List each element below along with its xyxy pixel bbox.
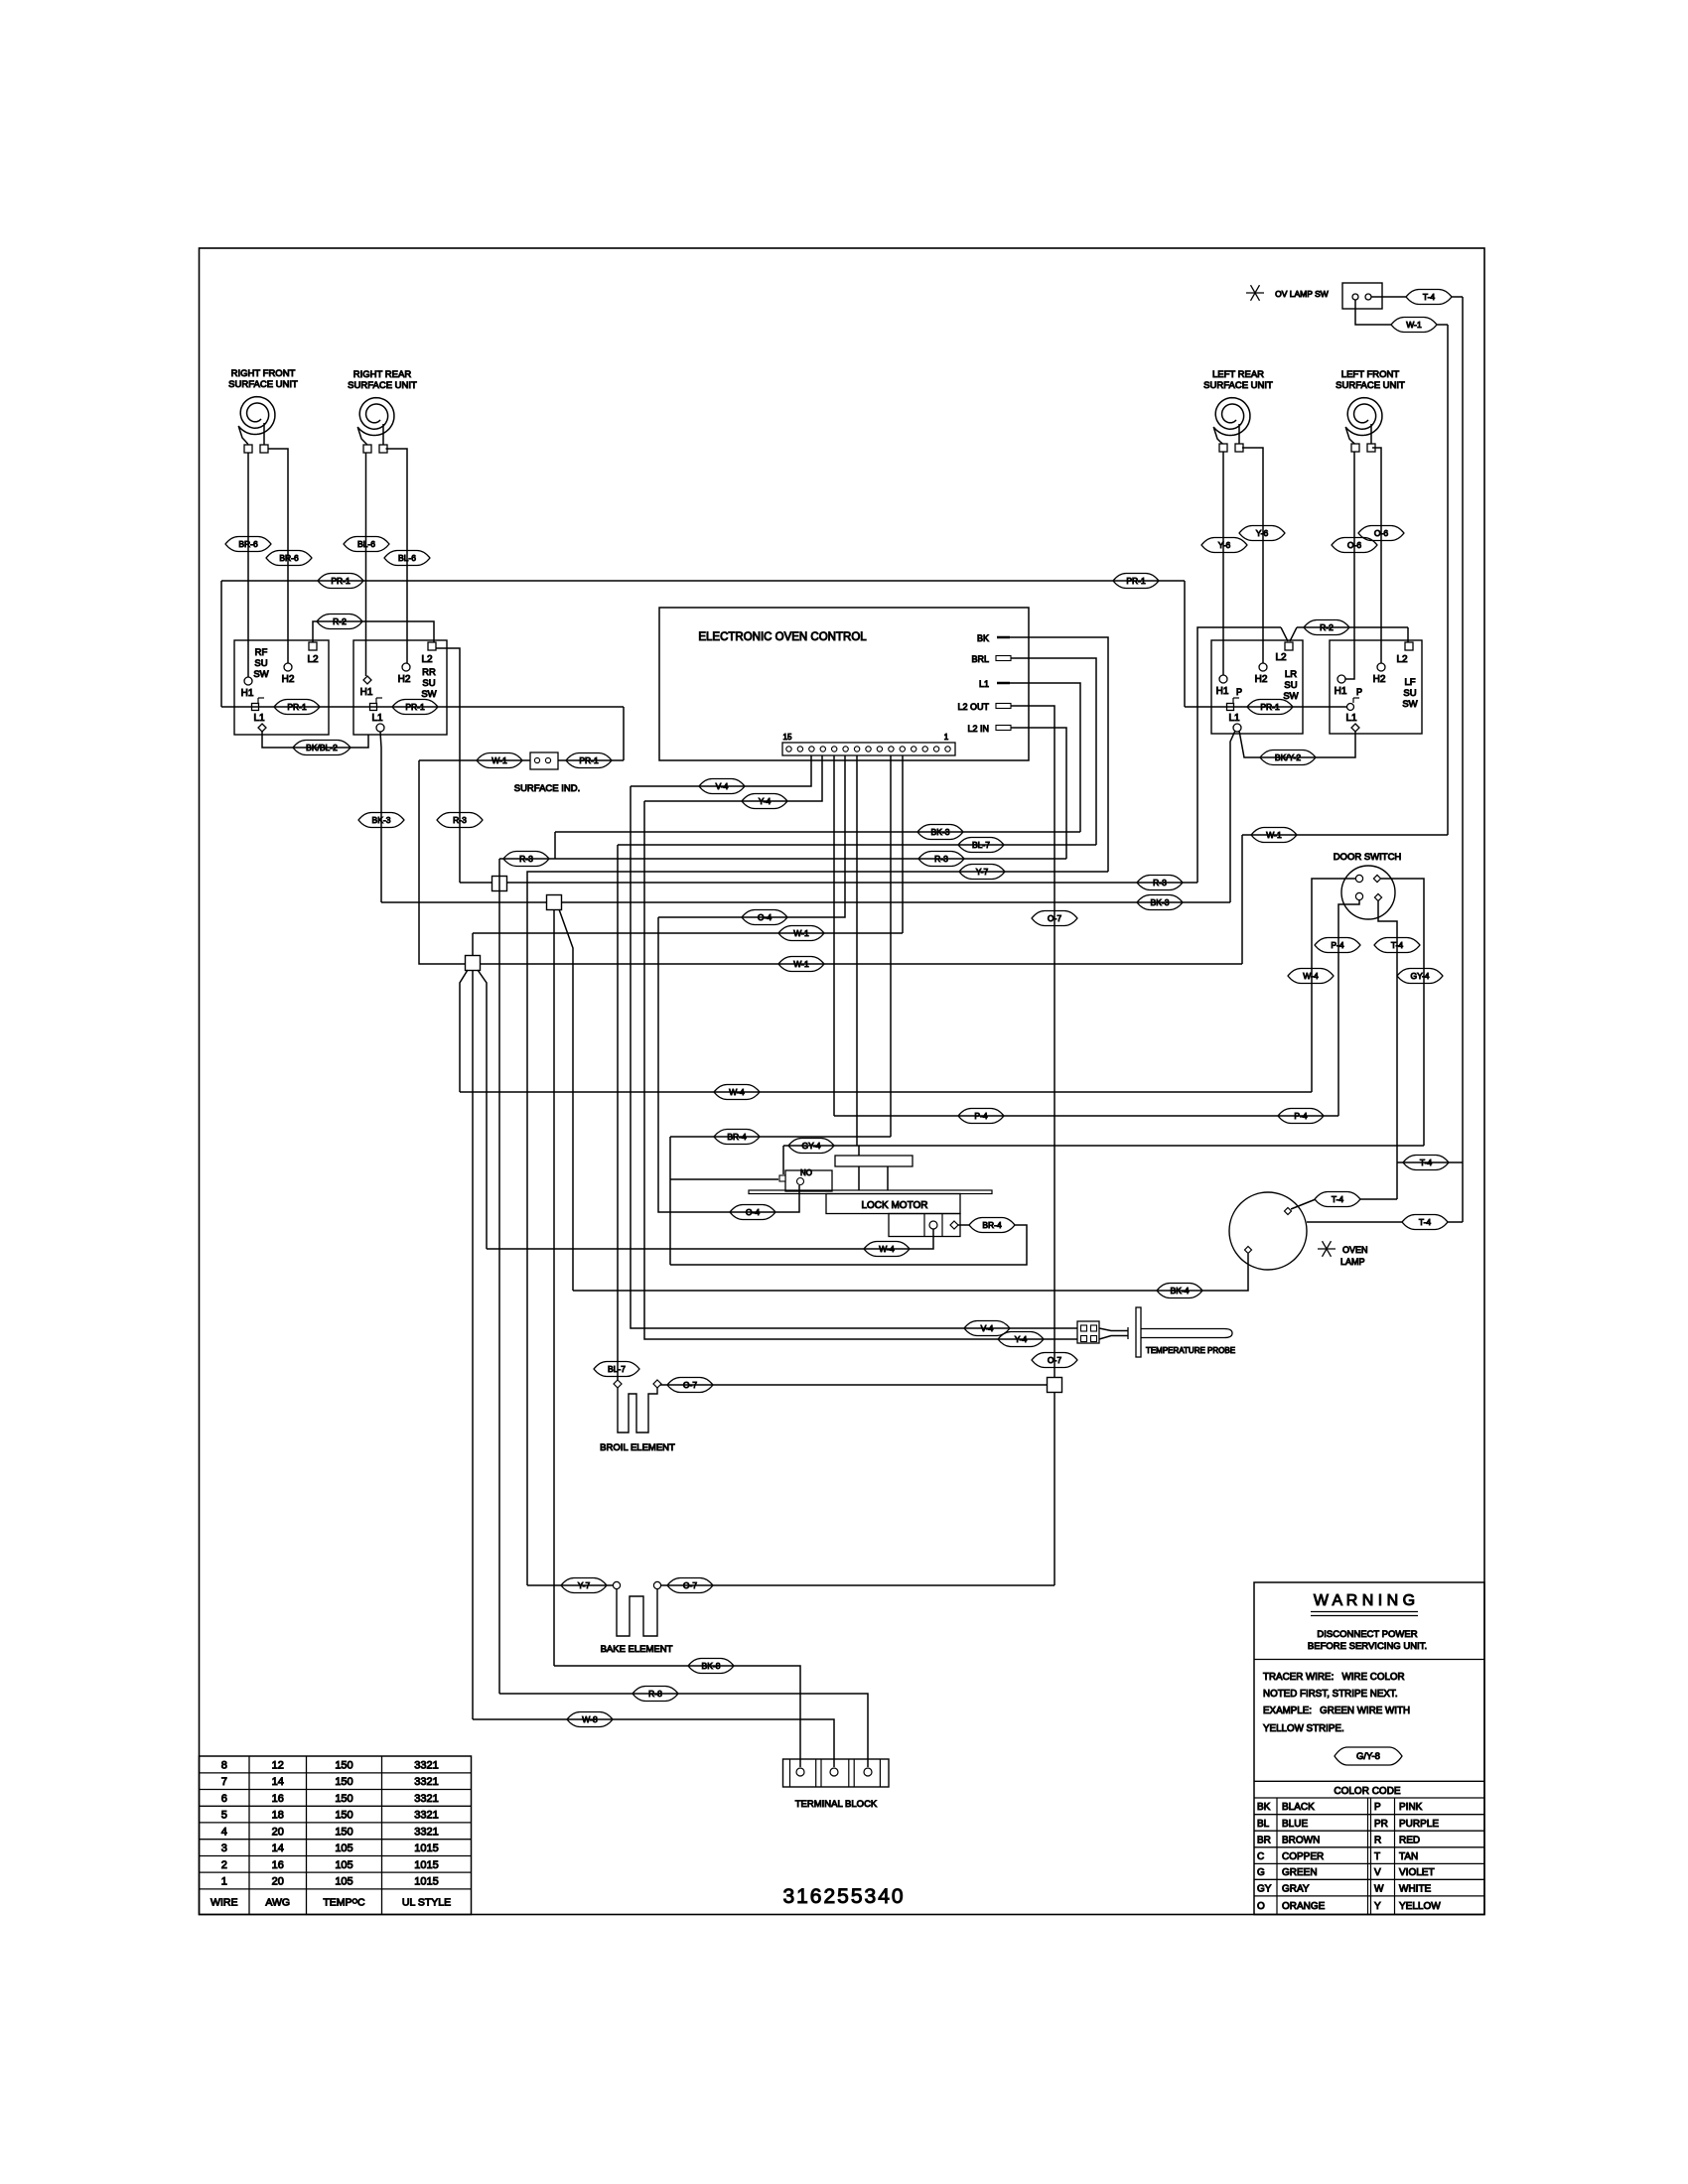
svg-text:R-3: R-3 xyxy=(1153,878,1167,887)
svg-text:TEMPERATURE PROBE: TEMPERATURE PROBE xyxy=(1146,1346,1235,1355)
connector T-4 (lamp right) xyxy=(1402,1215,1448,1230)
svg-text:TAN: TAN xyxy=(1399,1851,1418,1862)
svg-text:T-4: T-4 xyxy=(1423,292,1436,302)
terminal L2 of RR SU SW xyxy=(428,642,436,650)
svg-text:BR-4: BR-4 xyxy=(727,1132,747,1142)
svg-text:3321: 3321 xyxy=(414,1759,438,1771)
wire Y-7 bake line xyxy=(527,1584,613,1586)
asterisk marker for oven lamp switch xyxy=(1246,292,1264,294)
svg-text:L1: L1 xyxy=(979,679,989,689)
svg-text:H1: H1 xyxy=(241,688,254,699)
svg-text:W: W xyxy=(1374,1883,1384,1894)
svg-text:P-4: P-4 xyxy=(1294,1111,1308,1121)
connector BL-6 (RR H2) xyxy=(384,551,430,566)
svg-text:OV LAMP SW: OV LAMP SW xyxy=(1275,289,1329,299)
electronic oven control U1 box xyxy=(659,608,1029,760)
wire GY-4 drop to NO switch xyxy=(782,1146,784,1174)
svg-text:3321: 3321 xyxy=(414,1810,438,1822)
wire BR-4 from strip pin down xyxy=(890,755,892,1137)
wire W-8 to terminal block xyxy=(473,1719,834,1767)
svg-text:GREEN: GREEN xyxy=(1282,1867,1318,1878)
wire W-1 lamp switch horizontal xyxy=(1242,834,1448,836)
svg-text:L2 IN: L2 IN xyxy=(967,724,989,734)
wire white V-leg left xyxy=(460,970,468,1092)
junction orange net xyxy=(1048,1378,1062,1393)
svg-text:ORANGE: ORANGE xyxy=(1282,1901,1326,1912)
svg-text:BK-4: BK-4 xyxy=(1171,1286,1190,1296)
switch LF SU SW box xyxy=(1330,640,1422,734)
terminal P of LR SU SW xyxy=(1227,704,1234,711)
svg-text:SU: SU xyxy=(1284,680,1297,691)
svg-text:SW: SW xyxy=(421,689,436,700)
svg-text:3: 3 xyxy=(221,1843,227,1854)
svg-text:12: 12 xyxy=(272,1759,284,1771)
wire BK-3 line (L1 to red net) xyxy=(555,831,1080,833)
svg-text:VIOLET: VIOLET xyxy=(1399,1867,1435,1878)
svg-text:L1: L1 xyxy=(253,713,265,724)
svg-text:G/Y-8: G/Y-8 xyxy=(1356,1751,1380,1762)
svg-text:BK/Y-2: BK/Y-2 xyxy=(1275,752,1301,762)
wire RR L1 drop BK net xyxy=(380,732,381,902)
connector G/Y-8 example xyxy=(1335,1747,1402,1765)
svg-text:H2: H2 xyxy=(1373,674,1386,685)
terminal H1 of RF SU SW xyxy=(244,677,252,685)
svg-text:YELLOW STRIPE.: YELLOW STRIPE. xyxy=(1263,1723,1344,1734)
svg-text:GRAY: GRAY xyxy=(1282,1883,1310,1894)
svg-text:BL: BL xyxy=(1257,1819,1270,1830)
wire lamp right side T-4 xyxy=(1307,1221,1402,1223)
svg-text:C: C xyxy=(1257,1851,1264,1862)
connector R-8 xyxy=(633,1687,678,1702)
wire bake to orange trunk xyxy=(661,1584,1055,1586)
svg-text:H2: H2 xyxy=(282,674,295,685)
wire LR unit H1 lead xyxy=(1222,452,1224,675)
wire P-4 horizontal xyxy=(834,1115,1338,1117)
wire surface indicator to PR-1 xyxy=(558,759,624,761)
broil element left terminal xyxy=(614,1380,622,1388)
connector O-6 (LF H2) xyxy=(1358,526,1404,541)
svg-text:SURFACE UNIT: SURFACE UNIT xyxy=(228,379,298,390)
svg-text:G: G xyxy=(1257,1867,1265,1878)
svg-text:BK-8: BK-8 xyxy=(702,1661,721,1671)
svg-text:150: 150 xyxy=(335,1810,352,1822)
svg-text:SW: SW xyxy=(1402,699,1417,710)
svg-text:15: 15 xyxy=(783,733,792,742)
svg-text:SW: SW xyxy=(253,669,268,680)
door switch S2 body xyxy=(1341,866,1395,919)
svg-text:W-1: W-1 xyxy=(492,755,507,765)
svg-text:V-4: V-4 xyxy=(981,1323,994,1333)
connector O-7 (on L2 OUT trunk) xyxy=(1032,911,1077,926)
connector PR-1 (inside LR) xyxy=(1247,700,1293,715)
connector O-7 (broil) xyxy=(667,1378,713,1393)
bake element left terminal xyxy=(613,1581,620,1588)
wire W-1 to right trunk xyxy=(1437,324,1448,326)
broil element right terminal xyxy=(653,1380,661,1388)
svg-text:DISCONNECT POWER: DISCONNECT POWER xyxy=(1317,1629,1417,1640)
wire PR-1 right drop xyxy=(1184,581,1186,707)
connector W-4 (left) xyxy=(714,1085,760,1100)
svg-text:Y-4: Y-4 xyxy=(759,796,772,806)
svg-text:SURFACE IND.: SURFACE IND. xyxy=(514,783,581,794)
svg-text:6: 6 xyxy=(221,1793,227,1805)
wire EOC L1 pin xyxy=(1010,683,1080,832)
wire EOC L2 IN pin xyxy=(1011,728,1066,859)
terminal L2 of LR SU SW xyxy=(1285,642,1293,650)
svg-text:P-4: P-4 xyxy=(974,1111,988,1121)
oven lamp terminal lower xyxy=(1245,1247,1252,1254)
svg-text:BL-6: BL-6 xyxy=(398,553,416,563)
svg-text:W-1: W-1 xyxy=(1406,320,1422,330)
svg-text:Y-6: Y-6 xyxy=(1256,528,1269,538)
wire P line left (purple) xyxy=(221,706,624,708)
connector P-4 (mid) xyxy=(958,1109,1004,1124)
terminal L2 of LF SU SW xyxy=(1405,642,1413,650)
svg-text:316255340: 316255340 xyxy=(782,1885,905,1908)
temperature probe tube xyxy=(1141,1329,1232,1338)
connector GY-4 (door) xyxy=(1397,969,1443,984)
svg-text:BR-6: BR-6 xyxy=(238,539,258,549)
svg-text:L2: L2 xyxy=(1275,652,1287,663)
svg-text:H1: H1 xyxy=(1216,686,1229,697)
connector R-3 (left) xyxy=(503,852,549,867)
svg-text:RED: RED xyxy=(1399,1835,1420,1845)
terminal L2 of RF SU SW xyxy=(309,642,317,650)
lock motor mount bar xyxy=(749,1190,992,1194)
svg-text:SURFACE UNIT: SURFACE UNIT xyxy=(1336,380,1405,391)
terminal H1 of LF SU SW xyxy=(1337,675,1345,683)
wire white V-leg right xyxy=(478,970,487,1249)
asterisk oven lamp xyxy=(1318,1248,1336,1250)
wire R-2 line right xyxy=(1197,627,1281,883)
svg-text:BR-4: BR-4 xyxy=(982,1220,1002,1230)
wire W-1 drop to junction xyxy=(472,933,474,955)
svg-text:Y-6: Y-6 xyxy=(1218,540,1231,550)
wire brown lower loop xyxy=(670,1225,1027,1265)
svg-text:RIGHT REAR: RIGHT REAR xyxy=(353,369,412,380)
svg-text:1015: 1015 xyxy=(414,1843,438,1854)
wire right trunk W white vertical xyxy=(1447,325,1449,835)
wire lamp-switch to T-4 connector xyxy=(1371,296,1406,298)
connector Y-7 (upper) xyxy=(959,865,1005,880)
svg-text:O-4: O-4 xyxy=(746,1207,760,1217)
svg-text:L1: L1 xyxy=(1228,713,1240,724)
svg-text:RR: RR xyxy=(422,667,436,678)
wire GY-4 from strip pin down xyxy=(856,755,858,1146)
svg-text:TEMPOC: TEMPOC xyxy=(323,1897,365,1909)
connector Y-6 (LR H1) xyxy=(1201,538,1247,553)
svg-text:O-6: O-6 xyxy=(1374,528,1388,538)
wire Y-7 line BK pin to bake xyxy=(527,872,1108,1585)
color code table xyxy=(1254,1780,1484,1782)
svg-text:W-8: W-8 xyxy=(582,1714,598,1724)
connector BR-6 (RF H1) xyxy=(225,537,271,552)
bake element right terminal xyxy=(653,1581,660,1588)
wire T-4 upper horizontal xyxy=(1397,1161,1463,1163)
wire P-4 from strip pin down xyxy=(833,755,835,1116)
svg-text:R-3: R-3 xyxy=(934,854,948,864)
wire RR unit H1 lead xyxy=(365,453,367,676)
svg-text:BR-6: BR-6 xyxy=(279,553,299,563)
svg-text:PR-1: PR-1 xyxy=(331,576,351,586)
svg-text:L2: L2 xyxy=(307,654,319,665)
svg-text:BL-7: BL-7 xyxy=(608,1364,626,1374)
lock motor stem xyxy=(858,1166,860,1190)
terminal P of RF SU SW xyxy=(252,704,259,711)
NO contact circle xyxy=(797,1178,804,1185)
svg-text:O-4: O-4 xyxy=(758,912,772,922)
connector BK-3 (on L1 line) xyxy=(917,825,963,840)
connector PR-1 (surface ind) xyxy=(566,753,612,768)
terminal block lug 3 xyxy=(864,1768,872,1776)
oven lamp switch SW1 box xyxy=(1342,283,1382,309)
svg-text:BLUE: BLUE xyxy=(1282,1819,1308,1830)
svg-text:P: P xyxy=(1374,1802,1381,1813)
terminal H1 of RR SU SW xyxy=(363,676,371,684)
terminal H2 of RF SU SW xyxy=(284,663,292,671)
junction black net xyxy=(547,895,562,910)
svg-text:LEFT FRONT: LEFT FRONT xyxy=(1341,369,1400,380)
svg-text:105: 105 xyxy=(335,1843,352,1854)
surface indicator lamp box xyxy=(530,752,558,769)
connector Y-7 (bake) xyxy=(561,1578,607,1593)
svg-text:LEFT REAR: LEFT REAR xyxy=(1212,369,1264,380)
temperature probe bracket xyxy=(1136,1307,1141,1357)
svg-text:O: O xyxy=(1257,1901,1265,1912)
svg-text:Y-4: Y-4 xyxy=(1015,1334,1028,1344)
svg-text:3321: 3321 xyxy=(414,1776,438,1788)
svg-text:BLACK: BLACK xyxy=(1282,1802,1315,1813)
door switch pin top-left xyxy=(1355,875,1362,882)
svg-text:PR-1: PR-1 xyxy=(579,755,599,765)
terminal H2 of LR SU SW xyxy=(1259,663,1267,671)
wire W-1 EOC line xyxy=(473,932,903,934)
svg-text:4: 4 xyxy=(221,1826,227,1838)
svg-text:Y-7: Y-7 xyxy=(578,1580,591,1590)
svg-text:W-1: W-1 xyxy=(1266,830,1282,840)
wire Y-4 vertical trunk xyxy=(644,801,1077,1339)
svg-text:YELLOW: YELLOW xyxy=(1399,1901,1441,1912)
svg-text:150: 150 xyxy=(335,1793,352,1805)
broil element heater xyxy=(618,1388,657,1433)
connector PR-1 (right) xyxy=(1113,574,1159,589)
wire T-4 to right trunk xyxy=(1452,296,1463,298)
connector V-4 (probe) xyxy=(964,1321,1010,1336)
svg-text:W-4: W-4 xyxy=(879,1244,895,1254)
svg-text:14: 14 xyxy=(272,1776,284,1788)
terminal H2 of LF SU SW xyxy=(1377,663,1385,671)
connector BR-4 (left) xyxy=(714,1130,760,1145)
svg-text:O-7: O-7 xyxy=(1048,913,1061,923)
wire RF unit H1 lead xyxy=(247,453,249,677)
wire door TR pin gray xyxy=(1381,879,1424,1146)
wire white trunk vertical xyxy=(472,970,474,1719)
svg-text:T-4: T-4 xyxy=(1420,1158,1433,1167)
svg-text:SU: SU xyxy=(1403,688,1416,699)
wire LF unit H1 lead xyxy=(1345,452,1354,679)
connector T-4 (lamp switch) xyxy=(1406,290,1452,305)
svg-text:BK-3: BK-3 xyxy=(372,815,391,825)
junction white net xyxy=(466,956,481,971)
wire PR-1 riser to P line xyxy=(623,707,625,760)
svg-text:16: 16 xyxy=(272,1859,284,1871)
connector R-2 (left) xyxy=(317,614,362,629)
svg-text:150: 150 xyxy=(335,1759,352,1771)
svg-text:150: 150 xyxy=(335,1826,352,1838)
svg-text:R-3: R-3 xyxy=(519,854,533,864)
svg-text:V-4: V-4 xyxy=(716,781,729,791)
wire door BL pin pink xyxy=(1338,900,1359,1116)
connector BK-8 xyxy=(688,1659,734,1674)
wire O-4 from strip pin xyxy=(658,755,845,917)
svg-text:3321: 3321 xyxy=(414,1793,438,1805)
connector W-4 (door) xyxy=(1288,969,1334,984)
svg-text:BEFORE SERVICING UNIT.: BEFORE SERVICING UNIT. xyxy=(1308,1641,1427,1652)
svg-text:BAKE ELEMENT: BAKE ELEMENT xyxy=(601,1644,673,1655)
wire W-1 main horizontal xyxy=(480,963,1242,965)
lock motor brown contact xyxy=(950,1221,958,1229)
svg-text:DOOR SWITCH: DOOR SWITCH xyxy=(1334,852,1402,863)
wire black trunk vertical xyxy=(553,909,555,1666)
svg-text:SURFACE UNIT: SURFACE UNIT xyxy=(348,380,417,391)
svg-text:O-7: O-7 xyxy=(683,1580,697,1590)
svg-text:R-8: R-8 xyxy=(648,1689,662,1699)
svg-text:O-7: O-7 xyxy=(1048,1355,1061,1365)
svg-text:R-3: R-3 xyxy=(453,815,467,825)
wire BL-7 line BRL to broil xyxy=(618,844,1096,846)
wire NO contact line xyxy=(670,1178,778,1180)
svg-text:105: 105 xyxy=(335,1876,352,1888)
svg-text:W-1: W-1 xyxy=(793,928,809,938)
svg-text:ELECTRONIC OVEN CONTROL: ELECTRONIC OVEN CONTROL xyxy=(698,631,867,643)
wire PR-1 left drop xyxy=(220,581,222,707)
svg-text:TRACER WIRE: WIRE COLOR: TRACER WIRE: WIRE COLOR xyxy=(1263,1672,1405,1683)
svg-text:150: 150 xyxy=(335,1776,352,1788)
svg-text:W-1: W-1 xyxy=(793,959,809,969)
bake element heater xyxy=(617,1589,657,1636)
svg-text:L1: L1 xyxy=(371,713,383,724)
connector BK/BL-2 xyxy=(293,741,351,755)
terminal block body xyxy=(783,1759,890,1787)
svg-text:BROIL ELEMENT: BROIL ELEMENT xyxy=(600,1442,675,1453)
connector Y-4 (probe) xyxy=(998,1332,1044,1347)
svg-text:PINK: PINK xyxy=(1399,1802,1423,1813)
connector P-4 (right) xyxy=(1278,1109,1324,1124)
wire LF unit H2 lead xyxy=(1372,448,1381,663)
wire R-2 jumper RF L2 to RR L2 xyxy=(313,621,434,642)
svg-text:18: 18 xyxy=(272,1810,284,1822)
svg-text:BL-7: BL-7 xyxy=(972,840,990,850)
wire R-8 to terminal block xyxy=(499,1694,868,1767)
svg-text:105: 105 xyxy=(335,1859,352,1871)
connector O-4 (lower) xyxy=(730,1205,775,1220)
door switch pin top-right xyxy=(1373,875,1380,882)
wire BK-4 lamp return xyxy=(573,1254,1248,1291)
svg-text:O-7: O-7 xyxy=(683,1380,697,1390)
svg-text:BK-3: BK-3 xyxy=(1151,897,1170,907)
wire W-1 riser to lamp switch line xyxy=(1241,835,1243,964)
svg-text:PURPLE: PURPLE xyxy=(1399,1819,1439,1830)
svg-text:BK/BL-2: BK/BL-2 xyxy=(306,743,338,752)
svg-text:L2 OUT: L2 OUT xyxy=(957,702,989,712)
svg-text:GY-4: GY-4 xyxy=(1410,971,1429,981)
connector O-4 (upper) xyxy=(742,910,787,925)
connector O-6 (LF H1) xyxy=(1332,538,1377,553)
connector BL-6 (RR H1) xyxy=(344,537,389,552)
connector BK/Y-2 xyxy=(1260,751,1316,765)
wire EOC BK pin xyxy=(1010,637,1108,872)
svg-text:1015: 1015 xyxy=(414,1859,438,1871)
wire BL-7 drop to broil xyxy=(617,845,619,1380)
connector V-4 (upper) xyxy=(699,779,745,794)
svg-text:L1: L1 xyxy=(1345,713,1357,724)
svg-text:LR: LR xyxy=(1285,669,1297,680)
connector R-3 (on vertical) xyxy=(437,813,483,828)
wire black diagonal to BK-4 xyxy=(559,909,573,1291)
wire EOC L2 OUT pin xyxy=(1011,706,1055,1378)
svg-text:1: 1 xyxy=(221,1876,227,1888)
svg-text:Y-7: Y-7 xyxy=(976,867,989,877)
wire W-1 to surface indicator xyxy=(419,759,530,761)
svg-text:NO: NO xyxy=(800,1168,812,1177)
wire PR-1 purple net horizontal xyxy=(221,580,1185,582)
wire BK-3 long line xyxy=(381,901,1230,903)
wire V-4 vertical trunk xyxy=(631,786,1077,1328)
svg-text:LOCK MOTOR: LOCK MOTOR xyxy=(861,1200,927,1211)
wire RR unit H2 lead xyxy=(386,449,408,663)
connector BK-3 (door side) xyxy=(1137,895,1183,910)
connector O-7 (bake) xyxy=(667,1578,713,1593)
svg-text:L2: L2 xyxy=(1396,654,1408,665)
wire R-2 V-drop to LR L2 xyxy=(1281,627,1288,641)
wire BR-4 horizontal xyxy=(670,1136,891,1138)
connector BR-4 (lock) xyxy=(969,1218,1015,1233)
wire LR unit H2 lead xyxy=(1242,448,1263,663)
lock motor white contact xyxy=(929,1221,937,1229)
wire link 838 to 865 xyxy=(554,832,556,859)
svg-text:PR: PR xyxy=(1374,1819,1388,1830)
terminal P of LF SU SW xyxy=(1347,704,1354,711)
svg-text:8: 8 xyxy=(221,1759,227,1771)
oven lamp switch pin 2 xyxy=(1365,294,1371,300)
svg-text:W-4: W-4 xyxy=(729,1087,745,1097)
wire Y-4 from strip pin xyxy=(644,755,822,801)
connector Y-6 (LR H2) xyxy=(1239,526,1285,541)
svg-text:T-4: T-4 xyxy=(1391,940,1404,950)
temperature probe connector xyxy=(1077,1321,1099,1343)
svg-text:SU: SU xyxy=(422,678,435,689)
connector BK-4 xyxy=(1157,1284,1202,1298)
svg-text:LAMP: LAMP xyxy=(1340,1257,1365,1267)
wire GY-4 stem riser xyxy=(858,1146,860,1156)
wire right trunk T tan vertical xyxy=(1462,297,1464,1222)
connector W-4 (lock) xyxy=(864,1242,910,1257)
svg-text:W-4: W-4 xyxy=(1303,971,1319,981)
wire BK-8 to terminal block xyxy=(554,1666,800,1767)
wire W-1 surface-ind drop xyxy=(419,760,466,964)
svg-text:20: 20 xyxy=(272,1826,284,1838)
svg-text:UL STYLE: UL STYLE xyxy=(402,1897,451,1909)
wire orange trunk to bake xyxy=(1054,1392,1055,1585)
wire LR L1 to BK trunk xyxy=(1230,731,1235,902)
wire R-3 red horizontal xyxy=(499,858,1066,860)
terminal block lug 1 xyxy=(796,1768,804,1776)
svg-text:R: R xyxy=(1374,1835,1381,1845)
svg-text:16: 16 xyxy=(272,1793,284,1805)
svg-text:WIRE: WIRE xyxy=(211,1897,237,1909)
svg-text:BK: BK xyxy=(977,633,989,643)
svg-text:BROWN: BROWN xyxy=(1282,1835,1320,1845)
